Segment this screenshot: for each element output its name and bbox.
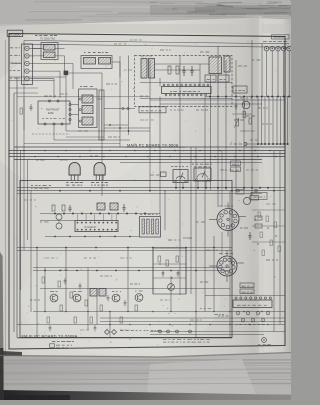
wire IF bus y220 — [40, 220, 75, 222]
wire vertical v110 — [109, 312, 111, 338]
wire inside tuner 3 — [159, 78, 161, 87]
junction — [246, 310, 249, 313]
transistor Q104 — [135, 294, 143, 302]
connector pin — [189, 330, 192, 333]
wire seg right mid 1 — [252, 209, 285, 211]
pin IC3-5 — [255, 297, 257, 299]
variable resistor VR2 — [236, 119, 239, 126]
transistor Q41 — [56, 214, 62, 220]
wire IF bus y213 — [40, 213, 160, 215]
junction — [168, 199, 169, 200]
junction — [242, 286, 243, 287]
IF transformer T3 — [209, 57, 222, 74]
wire vertical v186 — [185, 248, 187, 294]
resistor — [135, 305, 138, 311]
capacitor C11 — [183, 66, 185, 70]
junction — [256, 315, 257, 316]
wire vertical v66 — [65, 248, 67, 312]
resistor — [42, 277, 45, 283]
pin IC2-7 — [102, 222, 104, 224]
wire board bus y250 — [17, 250, 232, 252]
block MPX ADJ — [236, 190, 244, 194]
junction — [154, 287, 157, 290]
junction — [195, 131, 196, 132]
wire left vertical v2 — [16, 77, 18, 338]
label — [60, 93, 64, 95]
pin IC1 bottom-8 — [196, 94, 198, 96]
junction — [169, 66, 170, 67]
pin IC1 bottom-4 — [178, 94, 180, 96]
junction — [27, 312, 28, 313]
junction — [130, 245, 133, 248]
wire q32 area — [232, 113, 252, 115]
label — [230, 143, 232, 145]
block AM OSC — [205, 75, 216, 82]
svg-text:FM FRONT: FM FRONT — [46, 108, 60, 112]
junction — [234, 325, 237, 328]
meter M2 SIGNAL METER — [194, 168, 211, 181]
capacitor C61 — [30, 104, 32, 107]
wire seg left b — [14, 92, 38, 94]
resistor R71 — [158, 256, 161, 262]
svg-text:POWER: POWER — [183, 237, 192, 240]
label — [140, 95, 143, 97]
IC3 audio output — [233, 300, 272, 308]
junction — [181, 82, 184, 85]
svg-text:OUTPUT: OUTPUT — [274, 35, 285, 39]
block VR box 2 — [231, 167, 241, 172]
junction — [35, 206, 36, 207]
label — [160, 49, 164, 51]
wire terminal rows — [34, 63, 73, 65]
lamp box TUNING LAMP — [139, 107, 166, 113]
pin IC2-4 — [90, 222, 92, 224]
junction — [51, 214, 52, 215]
junction — [43, 331, 46, 334]
pin IC2-1 — [77, 222, 79, 224]
label — [36, 159, 39, 161]
connector pin — [167, 330, 170, 333]
junction — [129, 339, 130, 340]
label — [266, 259, 270, 261]
wire y143 segment — [24, 143, 120, 145]
pin IC2 bottom-10 — [115, 229, 117, 231]
junction — [185, 120, 186, 121]
pin coil — [79, 120, 81, 122]
junction — [181, 223, 184, 226]
wire mid vertical x160 — [159, 97, 161, 217]
wire bus y321 — [100, 321, 285, 323]
wire antenna feed — [33, 48, 65, 50]
wire meter drop 1 — [175, 183, 177, 188]
wire bus y318 — [100, 317, 285, 319]
pin IC1-7 — [190, 84, 192, 86]
junction — [52, 43, 55, 46]
capacitor C12 — [191, 66, 193, 70]
pin front end bottom — [44, 123, 46, 125]
junction — [247, 120, 250, 123]
pin IC2 bottom-7 — [102, 229, 104, 231]
junction — [231, 304, 232, 305]
output terminal OT5 — [287, 46, 292, 51]
junction — [27, 157, 30, 160]
resistor R51 — [243, 112, 246, 118]
label 2SC535 — [66, 182, 69, 184]
wire bus y324 — [17, 324, 285, 326]
pin IC1-9 — [198, 84, 200, 86]
wire terminal A5 lead — [29, 78, 34, 80]
label REC PHONES — [263, 41, 267, 43]
transistor case 2SC537 — [94, 162, 105, 175]
coupling transformer T6 — [90, 289, 97, 297]
junction — [15, 238, 16, 239]
wire left vertical v6 — [30, 190, 32, 312]
wire inside tuner 2 — [155, 69, 200, 71]
meter M1 TUNING METER — [173, 170, 188, 183]
wire power seg 1 — [153, 263, 186, 265]
label MPX FILTER — [84, 52, 86, 54]
label — [130, 283, 133, 285]
junction — [196, 157, 199, 160]
junction — [183, 151, 184, 152]
wire vertical v153 — [152, 248, 154, 294]
junction — [240, 295, 241, 296]
capacitor C71 — [162, 270, 164, 272]
wire vertical v37 — [36, 248, 38, 338]
wire IC3 bus — [205, 295, 285, 297]
wire vertical v88 — [87, 268, 89, 331]
capacitor C51 — [235, 103, 237, 105]
wire output drop 1 — [266, 51, 268, 97]
junction — [128, 193, 131, 196]
junction — [38, 323, 39, 324]
label — [250, 139, 253, 141]
wire meter drop 4 — [205, 181, 207, 188]
junction — [60, 252, 63, 255]
pin IC1 bottom-2 — [170, 94, 172, 96]
note voltages — [163, 339, 167, 341]
junction — [88, 340, 91, 343]
label — [60, 159, 63, 161]
junction — [229, 143, 232, 146]
resistor R21 — [161, 172, 167, 177]
label — [234, 119, 236, 121]
junction — [61, 131, 64, 134]
terminal A5 — [25, 77, 29, 81]
resistor R11 — [168, 66, 171, 74]
junction — [97, 314, 100, 317]
connector pins row right — [237, 189, 240, 192]
label boxes SW2 — [240, 283, 254, 288]
wire mid vertical x180 — [179, 56, 181, 295]
wire board label underline — [17, 337, 232, 339]
wire mid vertical x191 — [190, 147, 192, 294]
wire right col v1 — [257, 97, 259, 145]
pin IC2 bottom-8 — [107, 229, 109, 231]
junction — [260, 175, 263, 178]
transistor Q103 — [112, 294, 120, 302]
label under front end 1 — [78, 130, 82, 132]
junction — [165, 237, 168, 240]
junction — [167, 308, 168, 309]
junction — [71, 50, 74, 53]
junction — [231, 142, 232, 143]
wire bus y190 — [17, 190, 285, 192]
junction — [212, 266, 213, 267]
filter FL4 — [99, 58, 111, 65]
label socket S2 — [219, 253, 223, 255]
svg-text:IC HA1137: IC HA1137 — [84, 225, 97, 229]
resistor R72 — [166, 260, 169, 266]
junction — [86, 102, 87, 103]
junction — [94, 249, 97, 252]
pin IC1 bottom-3 — [174, 94, 176, 96]
junction — [28, 306, 29, 307]
label cap values — [236, 324, 238, 326]
pin IC1-11 — [207, 84, 209, 86]
junction — [240, 218, 241, 219]
wire mid horizontal y125 — [104, 124, 128, 126]
filter FL2 75ohm — [44, 52, 56, 58]
pin front end top — [48, 100, 50, 102]
junction — [80, 268, 81, 269]
junction — [131, 230, 132, 231]
junction — [224, 306, 225, 307]
label — [258, 107, 261, 109]
junction — [110, 342, 111, 343]
svg-text:AT-2600: AT-2600 — [8, 32, 20, 36]
wire bus y193 — [17, 193, 262, 195]
wire vertical v45 — [44, 268, 46, 312]
label — [236, 99, 239, 101]
junction — [44, 257, 45, 258]
junction — [254, 219, 256, 221]
junction — [276, 293, 277, 294]
capacitor electrolytic — [256, 311, 260, 315]
junction — [120, 196, 123, 199]
junction — [174, 313, 175, 314]
IF transformer T2 — [149, 59, 155, 79]
junction — [236, 199, 239, 202]
wire inside tuner 1 — [155, 63, 209, 65]
resistor — [266, 216, 269, 222]
label SP 4ohm — [258, 344, 261, 346]
resistor — [47, 317, 50, 323]
wire mid horizontal y131 — [66, 130, 150, 132]
marker diamond D2 — [112, 330, 117, 335]
label — [238, 65, 242, 67]
capacitor — [94, 325, 96, 327]
wire board bus y288 — [40, 288, 230, 290]
pin IC3-1 — [235, 297, 237, 299]
wire left horizontal h77 — [9, 76, 66, 78]
junction — [251, 167, 254, 170]
wire vertical v128 — [127, 248, 129, 312]
wire mid vertical x196 — [195, 147, 197, 338]
note average time — [120, 330, 124, 332]
wire seg left c — [23, 98, 25, 130]
junction — [183, 51, 186, 54]
wire right col v5 — [272, 97, 274, 145]
wire terminal A2 lead — [29, 55, 34, 57]
junction — [222, 169, 223, 170]
terminal A4 — [25, 69, 29, 73]
wire IC1 bus bottom — [140, 98, 232, 100]
wire main board underline — [126, 146, 185, 148]
label under front end 2 — [108, 136, 112, 138]
wire front end bottom — [53, 125, 55, 140]
junction — [52, 141, 55, 144]
label — [40, 221, 42, 223]
block converter — [233, 86, 247, 93]
connector pin — [159, 330, 162, 333]
wire right vertical x218 — [217, 46, 219, 207]
junction — [231, 309, 232, 310]
pin IC2-8 — [107, 222, 109, 224]
junction — [44, 333, 47, 336]
junction — [134, 143, 135, 144]
junction — [144, 191, 147, 194]
pin IC2-3 — [85, 222, 87, 224]
resistor — [274, 222, 277, 228]
capacitor electrolytic — [241, 318, 245, 322]
junction — [225, 87, 226, 88]
label — [252, 59, 254, 61]
wire board bus y270 — [33, 270, 230, 272]
capacitor electrolytic — [261, 318, 265, 322]
wire IF bus y231 — [45, 236, 139, 238]
dashed enclosure AM tuner pack — [135, 56, 233, 107]
junction — [12, 197, 15, 200]
IF transformer T4 — [224, 56, 230, 72]
label — [240, 227, 243, 229]
label Q101 — [50, 291, 54, 293]
capacitor C72 — [177, 270, 179, 272]
IC1 AM tuner uPC-555 — [162, 87, 212, 94]
label — [80, 329, 84, 331]
junction — [164, 128, 167, 131]
junction — [232, 297, 235, 300]
board outline FM IF PC BOARD — [20, 181, 232, 338]
IC2 FM IF HA1137 — [75, 221, 118, 232]
wire right bus y104 — [160, 103, 262, 105]
junction — [98, 255, 101, 258]
wire mid bus y153 — [9, 153, 285, 155]
wire meter drop 2 — [182, 183, 184, 188]
junction — [158, 321, 159, 322]
junction — [115, 217, 118, 220]
block VR box 1 — [231, 161, 241, 166]
label terminal A2 — [10, 54, 12, 56]
label 2SC537 — [91, 182, 94, 184]
pin IC2-5 — [94, 222, 96, 224]
junction — [231, 216, 234, 219]
wire J1 down — [65, 75, 67, 131]
junction — [201, 291, 204, 294]
resistor — [258, 212, 261, 218]
trimmer coil L6 — [110, 203, 118, 210]
junction — [181, 255, 184, 258]
junction — [232, 309, 235, 312]
pin IC1-10 — [203, 84, 205, 86]
label — [90, 155, 93, 157]
label FM IF heading — [31, 185, 33, 187]
resistor R61 — [20, 108, 23, 114]
label terminal A5 — [10, 77, 12, 79]
coil L3 — [82, 117, 93, 125]
wire left vertical v5 — [27, 160, 29, 240]
block FM FRONT END — [38, 101, 70, 124]
label — [206, 249, 210, 251]
wire socket S1 multiplex leads — [209, 219, 217, 221]
junction — [136, 207, 137, 208]
wire q41 link — [58, 220, 60, 223]
label — [44, 95, 48, 97]
pin IC2-2 — [81, 222, 83, 224]
wire mid bus y150 — [9, 150, 285, 152]
junction — [247, 41, 248, 42]
filter FL1 300ohm — [41, 43, 58, 60]
speaker terminal SP — [262, 338, 267, 343]
output terminal OT2 — [270, 46, 275, 51]
junction — [233, 332, 236, 335]
wire vertical v230 — [229, 191, 231, 338]
label — [266, 203, 270, 205]
block OSC BUFF — [79, 89, 98, 128]
resistor — [260, 232, 263, 238]
label terminal A4 — [10, 70, 12, 72]
wire bus y334 — [150, 334, 264, 336]
wire board bus y267 — [33, 267, 230, 269]
pin IC1-8 — [194, 84, 196, 86]
wire mid bus y162 — [120, 162, 262, 164]
junction — [121, 81, 122, 82]
wire top bus 2 — [24, 44, 289, 47]
resistor R32 — [62, 205, 65, 211]
wire MPX out — [112, 61, 120, 63]
junction — [107, 329, 108, 330]
pin IC3-8 — [269, 297, 271, 299]
label socket S1 — [219, 205, 223, 207]
wire mid vertical x222 — [221, 151, 223, 208]
pin IC1 bottom-9 — [200, 94, 202, 96]
junction — [35, 285, 36, 286]
label — [120, 257, 125, 259]
label — [60, 269, 62, 271]
junction — [54, 60, 55, 61]
pin IC1-4 — [176, 84, 178, 86]
wire ant to filter — [34, 47, 41, 49]
label — [120, 329, 123, 331]
pin IC3-2 — [240, 297, 242, 299]
junction — [127, 309, 130, 312]
coil L1 — [82, 95, 93, 103]
wire seg right mid 2 — [252, 225, 285, 227]
terminal A1 — [25, 46, 29, 50]
MPX filter block — [81, 56, 112, 69]
junction — [123, 71, 124, 72]
junction — [273, 107, 276, 110]
wire board bus y247 — [17, 247, 232, 249]
label — [140, 119, 144, 121]
label box right 1 — [251, 193, 267, 200]
wire right vertical x274 — [273, 151, 275, 332]
junction — [152, 172, 153, 173]
label terminal A3 — [10, 62, 14, 64]
wire mid vertical x165 — [164, 190, 166, 230]
capacitor — [107, 295, 109, 297]
label SIGNAL BEACON METER — [192, 163, 194, 165]
